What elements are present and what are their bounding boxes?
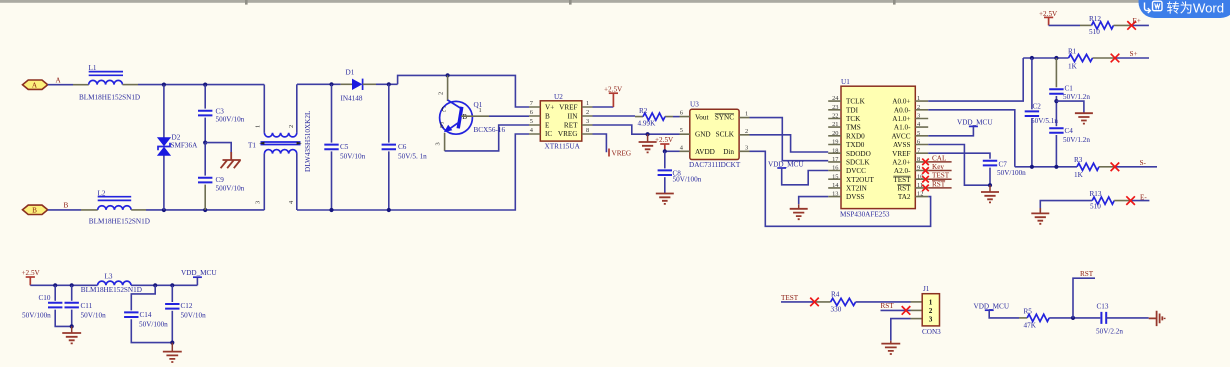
svg-text:E-: E- xyxy=(1140,193,1147,201)
wire U3 SYNC pin1 to U1 SDCLK pin17 xyxy=(750,118,829,161)
svg-text:1K: 1K xyxy=(1068,62,1078,70)
svg-text:2: 2 xyxy=(745,128,748,135)
earth ground at J1 xyxy=(890,341,892,344)
junction A rail / D2 xyxy=(162,83,166,87)
earth ground at C11 xyxy=(71,326,73,333)
svg-text:C: C xyxy=(442,106,447,114)
svg-text:C13: C13 xyxy=(1097,302,1109,310)
transistor Q1 xyxy=(440,75,473,134)
svg-text:1: 1 xyxy=(745,111,748,118)
junction RET/ground xyxy=(646,132,650,136)
svg-text:E+: E+ xyxy=(1133,17,1141,25)
junction rail / C12 xyxy=(170,283,174,287)
svg-text:50V/1.2n: 50V/1.2n xyxy=(1063,93,1090,101)
resistor R12 right lead xyxy=(1114,24,1132,26)
svg-text:DLW43SH510XK2L: DLW43SH510XK2L xyxy=(304,111,312,172)
wire RST to J1 pin2 xyxy=(881,309,911,311)
svg-text:XTR115UA: XTR115UA xyxy=(545,143,581,151)
junction rail / C14 branch xyxy=(153,283,157,287)
wire T1 pin1 riser xyxy=(263,85,265,133)
resistor R12 xyxy=(1092,22,1114,29)
capacitor C14 xyxy=(124,312,172,342)
port A xyxy=(23,80,48,89)
no-ERC X on E+ xyxy=(1127,21,1136,30)
U2 right pin numbers 1 2 3 8 xyxy=(586,100,589,134)
resistor R4 left lead xyxy=(815,301,831,303)
svg-text:50V/10n: 50V/10n xyxy=(340,152,366,160)
wire R13 to E- xyxy=(1131,200,1150,202)
Q1 collector pin 2 xyxy=(447,75,449,101)
wire S- bottom line xyxy=(1015,166,1077,168)
resistor R13 xyxy=(1092,197,1114,204)
wire U1 A0.0- pin2 xyxy=(928,110,1015,167)
svg-text:A: A xyxy=(56,77,62,85)
power +2.5V at R12 xyxy=(1039,10,1058,26)
junction rail / C10 xyxy=(53,283,57,287)
svg-text:D1: D1 xyxy=(346,68,355,76)
power VDD_MCU at U1 AVCC pin5 xyxy=(957,118,993,126)
wire R1 to S+ xyxy=(1115,57,1149,59)
svg-text:Q1: Q1 xyxy=(474,101,483,109)
diode D1 xyxy=(341,79,376,90)
svg-text:RST: RST xyxy=(932,180,946,188)
ground stem at U3 GND xyxy=(647,134,649,142)
svg-text:A2.0-: A2.0- xyxy=(894,167,911,175)
earth ground at U3 GND xyxy=(639,142,657,152)
svg-text:2: 2 xyxy=(438,92,445,95)
capacitor C9 xyxy=(198,143,212,210)
U1 right pin stubs xyxy=(915,101,928,197)
svg-text:GND: GND xyxy=(695,131,711,139)
svg-text:R13: R13 xyxy=(1090,190,1102,198)
Q1 base wire to U2 pin B xyxy=(461,115,489,117)
svg-text:A0.0-: A0.0- xyxy=(894,106,911,114)
junction C3-C9 ground tap xyxy=(203,141,207,145)
svg-text:TMS: TMS xyxy=(846,124,861,132)
svg-text:RET: RET xyxy=(564,121,578,129)
inductor L1 xyxy=(89,64,124,84)
svg-text:C5: C5 xyxy=(340,143,349,151)
U2 left pin numbers 7 6 5 4 xyxy=(530,100,534,134)
power VDD_MCU at U1 DVCC pin16 xyxy=(768,160,804,168)
junction C10/C11 ground xyxy=(70,324,74,328)
svg-text:R1: R1 xyxy=(1068,47,1077,55)
svg-text:50V/5.1n: 50V/5.1n xyxy=(1031,117,1058,125)
svg-text:B: B xyxy=(462,113,467,121)
svg-text:50V/100n: 50V/100n xyxy=(673,176,702,184)
U3 right pin numbers 1 2 3 xyxy=(745,111,748,152)
svg-text:+2.5V: +2.5V xyxy=(655,136,674,144)
capacitor C5 xyxy=(324,84,338,210)
svg-text:Key: Key xyxy=(932,163,944,171)
Q1 base bar xyxy=(458,107,462,129)
junction top rail / C6 xyxy=(387,82,391,86)
svg-text:U2: U2 xyxy=(554,93,563,101)
svg-text:R4: R4 xyxy=(831,291,840,299)
IC U1 MSP430AFE253 xyxy=(841,86,915,208)
svg-text:RST: RST xyxy=(1080,270,1094,278)
svg-text:L3: L3 xyxy=(105,273,113,281)
wire R2 to U3 Vout pin6 xyxy=(673,116,680,118)
capacitor C8 xyxy=(658,151,672,193)
no-ERC X marks pins 8-11 xyxy=(922,159,929,192)
capacitor C6 xyxy=(382,84,396,210)
svg-text:C7: C7 xyxy=(999,160,1008,168)
no-ERC X on S+ xyxy=(1111,54,1120,63)
svg-text:TXD0: TXD0 xyxy=(846,141,865,149)
svg-text:3: 3 xyxy=(586,118,589,125)
svg-text:A2.0+: A2.0+ xyxy=(892,158,910,166)
svg-text:22: 22 xyxy=(832,113,838,120)
IC U3 DAC7311IDCKT xyxy=(690,109,739,159)
U3 left pin numbers 6 5 4 xyxy=(680,110,684,152)
svg-text:TA2: TA2 xyxy=(898,193,911,201)
wire T1 pin3 riser xyxy=(263,154,265,210)
svg-text:BLM18HE152SN1D: BLM18HE152SN1D xyxy=(89,217,150,225)
svg-text:12: 12 xyxy=(917,191,923,198)
svg-text:9: 9 xyxy=(917,165,920,172)
svg-text:VREF: VREF xyxy=(892,150,910,158)
svg-text:DVSS: DVSS xyxy=(846,193,864,201)
svg-text:2: 2 xyxy=(929,307,933,315)
svg-text:1: 1 xyxy=(929,299,933,307)
svg-text:510: 510 xyxy=(1089,28,1100,36)
svg-text:A1.0+: A1.0+ xyxy=(892,115,910,123)
svg-text:50V/100n: 50V/100n xyxy=(997,169,1026,177)
resistor R1 leads xyxy=(1093,57,1116,59)
wire port A to L1 xyxy=(48,84,73,86)
svg-text:U1: U1 xyxy=(841,78,850,86)
svg-text:TEST: TEST xyxy=(932,172,950,180)
wire U1 DVSS pin13 to ground xyxy=(799,197,829,205)
svg-text:E: E xyxy=(545,121,550,129)
svg-text:330: 330 xyxy=(831,305,842,313)
junction bottom line / C2 xyxy=(1030,165,1034,169)
svg-text:VREF: VREF xyxy=(559,104,577,112)
svg-text:TDI: TDI xyxy=(846,106,859,114)
wire RST riser xyxy=(1073,278,1095,318)
svg-text:R3: R3 xyxy=(1074,156,1083,164)
wire T1 pin2 riser xyxy=(296,84,298,133)
svg-text:50V/10n: 50V/10n xyxy=(181,312,207,320)
wire TEST to R4 xyxy=(781,301,815,303)
pin L2.1 xyxy=(81,209,98,211)
power VDD_MCU bottom-left xyxy=(181,269,217,277)
svg-text:U3: U3 xyxy=(690,101,699,109)
inductor L2 xyxy=(98,189,132,210)
stub wire Key xyxy=(928,170,951,172)
resistor R2 xyxy=(643,113,665,120)
wire VDD_MCU to AVCC xyxy=(928,126,973,135)
svg-text:AVDD: AVDD xyxy=(695,148,715,156)
svg-text:19: 19 xyxy=(832,139,838,146)
svg-text:VDD_MCU: VDD_MCU xyxy=(957,118,993,126)
svg-text:510: 510 xyxy=(1090,203,1101,211)
svg-text:TCK: TCK xyxy=(846,115,861,123)
wire rail step up to Q1 level xyxy=(398,75,529,107)
pin J1.2 stub xyxy=(911,309,923,311)
wire R5 to C13 xyxy=(1049,317,1100,319)
transformer T1 xyxy=(259,133,302,154)
resistor R2 leads xyxy=(635,116,673,118)
wire L1 to T1 pin1 (A rail) xyxy=(138,84,264,86)
svg-text:6: 6 xyxy=(530,109,533,116)
wire T1 pin2 to D1 (top rail) xyxy=(297,83,341,85)
svg-text:14: 14 xyxy=(832,182,839,189)
TVS diode D2 xyxy=(157,85,171,210)
svg-text:C6: C6 xyxy=(398,143,407,151)
svg-text:D2: D2 xyxy=(172,134,181,142)
junction AVSS/C7/ground xyxy=(988,183,992,187)
svg-text:C1: C1 xyxy=(1065,84,1074,92)
svg-text:R5: R5 xyxy=(1024,307,1033,315)
wire R4 to J1 pin1 xyxy=(856,301,911,303)
power +2.5V at U2 pin1 xyxy=(612,93,614,107)
connector J1 CON3 xyxy=(922,294,939,326)
junction bottom rail / C5 xyxy=(329,208,333,212)
svg-text:18: 18 xyxy=(832,147,838,154)
wire +2.5V to R12 xyxy=(1049,24,1080,26)
svg-text:C14: C14 xyxy=(140,311,152,319)
junction Q1 collector xyxy=(446,73,450,77)
svg-text:500V/10n: 500V/10n xyxy=(216,185,245,193)
svg-text:A0.0+: A0.0+ xyxy=(892,98,910,106)
wire R12 to E+ xyxy=(1132,24,1149,26)
wire D1 to C6 junction xyxy=(376,83,398,85)
svg-text:BLM18HE152SN1D: BLM18HE152SN1D xyxy=(81,286,142,294)
svg-text:20: 20 xyxy=(832,130,838,137)
capacitor C2 xyxy=(1025,58,1039,167)
svg-text:15: 15 xyxy=(832,173,838,180)
wire U2 VREF pin1 to +2.5V xyxy=(593,106,614,108)
wire port B to L2 xyxy=(48,209,81,211)
svg-text:RXD0: RXD0 xyxy=(846,132,865,140)
wire to mid ground xyxy=(1056,101,1084,113)
svg-text:RST: RST xyxy=(897,185,911,193)
wire VDD_MCU to DVCC xyxy=(782,168,829,185)
junction B rail / D2 xyxy=(162,208,166,212)
svg-text:MSP430AFE253: MSP430AFE253 xyxy=(840,211,890,219)
svg-text:50V/10n: 50V/10n xyxy=(81,312,107,320)
svg-text:S-: S- xyxy=(1140,159,1147,167)
svg-text:SMF36A: SMF36A xyxy=(171,141,199,149)
svg-text:VDD_MCU: VDD_MCU xyxy=(181,269,217,277)
no-ERC X on S- xyxy=(1111,163,1120,172)
power VDD_MCU at R5 xyxy=(974,302,1010,310)
svg-text:VDD_MCU: VDD_MCU xyxy=(974,302,1010,310)
svg-text:6: 6 xyxy=(680,110,683,117)
svg-text:DVCC: DVCC xyxy=(846,167,866,175)
svg-text:R2: R2 xyxy=(639,107,648,115)
svg-text:TEST: TEST xyxy=(893,176,911,184)
power +2.5V bottom-left xyxy=(22,269,41,285)
svg-text:J1: J1 xyxy=(923,285,930,293)
svg-text:SDCLK: SDCLK xyxy=(846,158,870,166)
wire riser to VDD_MCU bar xyxy=(196,277,198,285)
svg-text:C4: C4 xyxy=(1065,127,1074,135)
earth ground at C8 xyxy=(656,194,674,204)
svg-text:C12: C12 xyxy=(181,302,193,310)
svg-text:4.99K: 4.99K xyxy=(638,120,657,128)
svg-text:500V/10n: 500V/10n xyxy=(216,116,245,124)
svg-text:Din: Din xyxy=(723,148,734,156)
capacitor C7 xyxy=(983,161,997,185)
svg-text:SDODO: SDODO xyxy=(846,150,871,158)
pin J1.1 stub xyxy=(911,301,923,303)
junction top line / C1 xyxy=(1054,56,1058,60)
svg-text:AVCC: AVCC xyxy=(891,132,910,140)
svg-text:SCLK: SCLK xyxy=(716,131,735,139)
junction AVDD / C8 xyxy=(663,149,667,153)
earth ground at C12 xyxy=(171,343,173,352)
svg-text:8: 8 xyxy=(917,156,920,163)
earth ground at DVSS xyxy=(798,204,800,209)
earth ground at C7 xyxy=(989,185,991,192)
svg-text:Vout: Vout xyxy=(695,114,708,122)
resistor R5 xyxy=(1027,314,1049,321)
junction C14/C12 ground xyxy=(170,341,174,345)
wire U1 A0.0+ pin1 xyxy=(928,58,1023,101)
svg-text:IIN: IIN xyxy=(568,113,579,121)
svg-text:B: B xyxy=(64,202,69,210)
Q1 emitter with arrow xyxy=(448,123,458,130)
svg-text:DAC7311IDCKT: DAC7311IDCKT xyxy=(689,161,741,169)
junction bottom line / C4 xyxy=(1054,165,1058,169)
wire U2 RET pin3 to U3 GND pin5 xyxy=(593,125,680,134)
capacitor C11 xyxy=(65,285,79,326)
resistor R3 right lead xyxy=(1099,166,1115,168)
svg-text:+2.5V: +2.5V xyxy=(22,269,41,277)
port B xyxy=(23,205,48,214)
no-ERC X on E- xyxy=(1126,196,1135,205)
svg-text:A1.0-: A1.0- xyxy=(894,124,911,132)
earth ground at R13 xyxy=(1039,208,1041,213)
capacitor C3 xyxy=(198,85,212,143)
capacitor C13 xyxy=(1101,312,1148,324)
svg-text:8: 8 xyxy=(586,127,589,134)
resistor R1 xyxy=(1069,54,1093,61)
svg-text:50V/5. 1n: 50V/5. 1n xyxy=(398,152,427,160)
svg-text:B: B xyxy=(545,113,550,121)
svg-text:C11: C11 xyxy=(81,302,93,310)
svg-text:5: 5 xyxy=(680,127,683,134)
svg-text:13: 13 xyxy=(832,191,838,198)
stub wire CAL xyxy=(928,161,951,163)
svg-text:5: 5 xyxy=(530,118,533,125)
wire U3 SCLK pin2 to U1 SDODO pin18 xyxy=(750,135,829,152)
no-ERC X on TEST xyxy=(810,298,819,307)
capacitor C12 xyxy=(165,285,179,342)
svg-text:C9: C9 xyxy=(216,176,225,184)
svg-text:BLM18HE152SN1D: BLM18HE152SN1D xyxy=(79,94,140,102)
junction bottom rail / C6 xyxy=(387,208,391,212)
svg-text:6: 6 xyxy=(917,139,920,146)
wire C14 branch jog xyxy=(131,285,155,310)
resistor R3 xyxy=(1077,163,1099,170)
svg-text:XT2IN: XT2IN xyxy=(846,185,868,193)
capacitor C1 xyxy=(1049,58,1063,126)
stub wire RST xyxy=(928,187,951,189)
svg-text:16: 16 xyxy=(832,165,838,172)
wire S+ top line xyxy=(1023,57,1068,59)
svg-text:B: B xyxy=(32,206,37,214)
U3 left pin stubs xyxy=(680,117,690,152)
svg-text:VREG: VREG xyxy=(612,149,632,157)
svg-text:VREG: VREG xyxy=(558,130,578,138)
U1 right pin numbers 1-12 xyxy=(917,95,923,197)
junction top rail / C5 xyxy=(329,82,333,86)
U2 right pin stubs xyxy=(582,107,593,134)
op-amp/IC U2 XTR115UA xyxy=(540,101,582,141)
svg-text:IN4148: IN4148 xyxy=(341,94,363,102)
resistor R13 right lead xyxy=(1114,200,1130,202)
svg-text:转为Word: 转为Word xyxy=(1167,0,1225,15)
pin L2.2 xyxy=(131,209,146,211)
convert-to-Word button xyxy=(1139,0,1230,18)
power +2.5V at U3 AVDD xyxy=(664,144,666,151)
svg-text:50V/100n: 50V/100n xyxy=(22,312,51,320)
wire J1 pin3 to ground xyxy=(891,319,911,341)
svg-text:AVSS: AVSS xyxy=(893,141,910,149)
junction top line / C2 xyxy=(1030,56,1034,60)
svg-text:1K: 1K xyxy=(1074,171,1084,179)
earth ground sideways at C13 xyxy=(1149,311,1165,326)
svg-text:V+: V+ xyxy=(545,104,554,112)
wire L3 to VDD_MCU riser xyxy=(131,284,197,286)
pin J1.3 stub xyxy=(911,318,923,320)
U1 left pin numbers 24-13 xyxy=(832,95,839,197)
svg-text:S+: S+ xyxy=(1130,50,1138,58)
svg-text:C10: C10 xyxy=(39,294,51,302)
Q1 emitter wire to U2 pin E xyxy=(444,133,446,151)
pin L1.2 xyxy=(123,84,139,86)
U2 left pin stubs xyxy=(529,107,540,134)
svg-text:2: 2 xyxy=(288,125,295,128)
svg-text:1: 1 xyxy=(255,125,262,128)
wire R3 to S- xyxy=(1115,166,1157,168)
svg-text:CAL: CAL xyxy=(932,154,946,162)
resistor R4 xyxy=(831,298,856,305)
wire ground to R13 xyxy=(1040,201,1092,213)
svg-text:3: 3 xyxy=(435,142,442,145)
junction B rail / C9 xyxy=(203,208,207,212)
U1 left pin stubs xyxy=(828,101,841,197)
wire U1 AVSS pin6 to C7 bottom xyxy=(928,145,990,186)
svg-text:VDD_MCU: VDD_MCU xyxy=(768,160,804,168)
inductor L3 xyxy=(98,273,131,286)
wire ground tap xyxy=(205,143,231,153)
svg-text:IC: IC xyxy=(545,130,552,138)
wire +2.5V to AVDD pin4 xyxy=(665,150,680,152)
svg-text:RST: RST xyxy=(881,302,895,310)
wire U2 VREG pin8 xyxy=(593,134,607,152)
U3 right pin stubs xyxy=(739,118,749,152)
net label VREG xyxy=(608,149,610,157)
earth ground (rake) at C3/C9 xyxy=(221,152,241,168)
capacitor C4 xyxy=(1049,128,1063,167)
svg-text:21: 21 xyxy=(832,121,838,128)
junction rail / C11 xyxy=(70,283,74,287)
svg-text:TEST: TEST xyxy=(781,294,799,302)
svg-text:+2.5V: +2.5V xyxy=(604,86,623,94)
svg-text:5: 5 xyxy=(917,130,920,137)
wire U2 IIN pin2 to R2 xyxy=(593,115,636,117)
svg-text:C2: C2 xyxy=(1033,102,1042,110)
wire U3 Din pin3 to U1 TA2 pin12 xyxy=(750,151,931,226)
svg-text:50V/2.2n: 50V/2.2n xyxy=(1096,327,1123,335)
capacitor C10 xyxy=(48,285,72,326)
wire bottom rail T1 pin4 to U2 IC pin xyxy=(297,134,529,210)
